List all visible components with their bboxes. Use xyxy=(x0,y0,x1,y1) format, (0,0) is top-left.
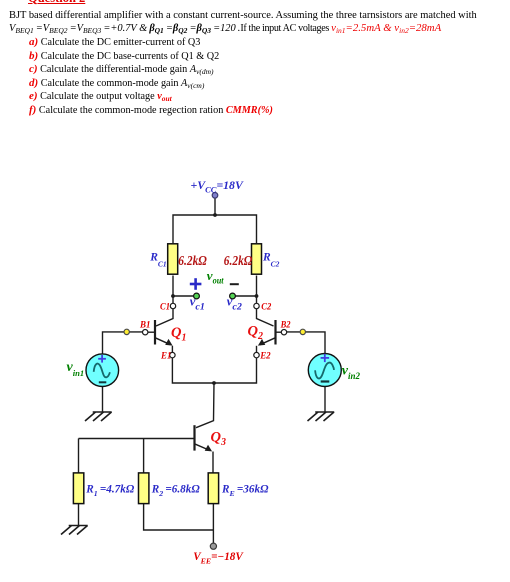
paragraph line 1 xyxy=(9,10,477,21)
pin B1 xyxy=(143,330,148,335)
vout minus sign xyxy=(230,283,239,285)
wire vin1 to ground xyxy=(102,386,104,412)
svg-text:C1: C1 xyxy=(160,303,170,313)
svg-text:E2: E2 xyxy=(259,351,271,361)
transistor Q3 xyxy=(195,425,213,451)
source vin2 xyxy=(308,354,341,387)
wire E1 to shared emitter node xyxy=(172,358,214,383)
wire R2 bottom to VEE rail xyxy=(144,503,214,530)
transistor Q1 xyxy=(155,320,173,346)
svg-text:C2: C2 xyxy=(261,303,271,313)
resistor R2 xyxy=(139,473,149,504)
item d xyxy=(29,77,204,89)
wire Q1 base to B1 xyxy=(148,331,154,333)
paragraph line 2 xyxy=(9,22,441,34)
svg-text:VEE=−18V: VEE=−18V xyxy=(193,551,244,566)
item b xyxy=(29,50,219,62)
svg-text:+VCC=18V: +VCC=18V xyxy=(191,178,244,194)
resistor RE xyxy=(208,473,218,504)
svg-text:B2: B2 xyxy=(280,321,291,331)
wire node to vc1 terminal xyxy=(173,295,194,297)
wire Q3 base rail xyxy=(79,438,194,440)
svg-text:RC2: RC2 xyxy=(262,252,280,269)
node: rail junction xyxy=(213,213,217,217)
svg-text:RC1: RC1 xyxy=(149,252,166,269)
svg-text:vin2: vin2 xyxy=(342,363,361,381)
ground under R1 xyxy=(61,526,88,535)
heading red title (cut off at top) xyxy=(28,0,85,6)
svg-text:6.2kΩ: 6.2kΩ xyxy=(224,253,253,268)
item c xyxy=(29,63,214,75)
wire Q2 base to B2 xyxy=(277,331,282,333)
wire VCC terminal to rail xyxy=(214,199,216,216)
wire C2 to Q2 collector xyxy=(257,309,274,326)
wire R1 bottom to ground xyxy=(78,503,80,525)
power terminal +VCC xyxy=(212,193,218,199)
terminal vc1 xyxy=(194,293,200,299)
pin C1 xyxy=(170,303,175,308)
svg-text:R1 =4.7kΩ: R1 =4.7kΩ xyxy=(85,484,135,498)
svg-text:Q2: Q2 xyxy=(248,324,263,343)
node yellow B1 xyxy=(124,329,129,334)
svg-text:6.2kΩ: 6.2kΩ xyxy=(178,253,207,268)
item a xyxy=(29,36,200,48)
wire RC1 bottom to collector node xyxy=(172,276,174,304)
svg-text:RE =36kΩ: RE =36kΩ xyxy=(221,484,269,498)
wire Q2 emitter to E2 xyxy=(256,346,258,353)
svg-text:R2 =6.8kΩ: R2 =6.8kΩ xyxy=(151,484,201,498)
pin E1 xyxy=(170,352,175,357)
wire Q3 emitter to RE xyxy=(212,452,214,474)
node yellow B2 xyxy=(300,329,305,334)
transistor Q2 xyxy=(258,320,276,346)
resistor R1 xyxy=(73,473,83,504)
node: shared emitter junction xyxy=(212,381,216,385)
wire top rail with drops to RC1 and RC2 xyxy=(173,215,257,243)
wire C1 to Q1 collector xyxy=(156,309,173,326)
ground under vin2 xyxy=(308,412,335,421)
svg-text:Q3: Q3 xyxy=(211,430,226,449)
wire node to vc2 terminal xyxy=(235,295,257,297)
wire vin2 to ground xyxy=(324,386,326,412)
wire E2 to shared emitter node xyxy=(214,358,257,383)
terminal vc2 xyxy=(230,293,236,299)
source vin1 xyxy=(86,354,119,387)
svg-text:E1: E1 xyxy=(160,351,171,361)
pin C2 xyxy=(254,303,259,308)
svg-text:vin1: vin1 xyxy=(67,360,85,378)
power terminal VEE xyxy=(210,543,216,549)
pin E2 xyxy=(254,352,259,357)
wire RE bottom to VEE terminal xyxy=(212,503,214,543)
svg-text:vout: vout xyxy=(207,268,224,285)
resistor RC2 xyxy=(252,244,262,274)
wire R2 top xyxy=(143,439,145,474)
resistor RC1 xyxy=(168,244,178,274)
pin B2 xyxy=(281,330,286,335)
item f xyxy=(29,104,273,116)
node: left collector junction xyxy=(171,294,175,298)
wire RC2 bottom to collector node xyxy=(256,276,258,304)
wire emitter node down to Q3 collector xyxy=(196,383,214,428)
svg-text:B1: B1 xyxy=(139,321,150,331)
item e xyxy=(29,90,172,102)
svg-text:Q1: Q1 xyxy=(171,325,186,344)
wire B1 to vin1 source xyxy=(103,332,143,355)
node: right collector junction xyxy=(255,294,259,298)
vout plus sign xyxy=(190,278,202,290)
wire B2 to vin2 source xyxy=(287,332,325,355)
wire R1 top xyxy=(78,439,80,474)
ground under vin1 xyxy=(85,412,112,421)
wire Q1 emitter to E1 xyxy=(171,346,173,353)
